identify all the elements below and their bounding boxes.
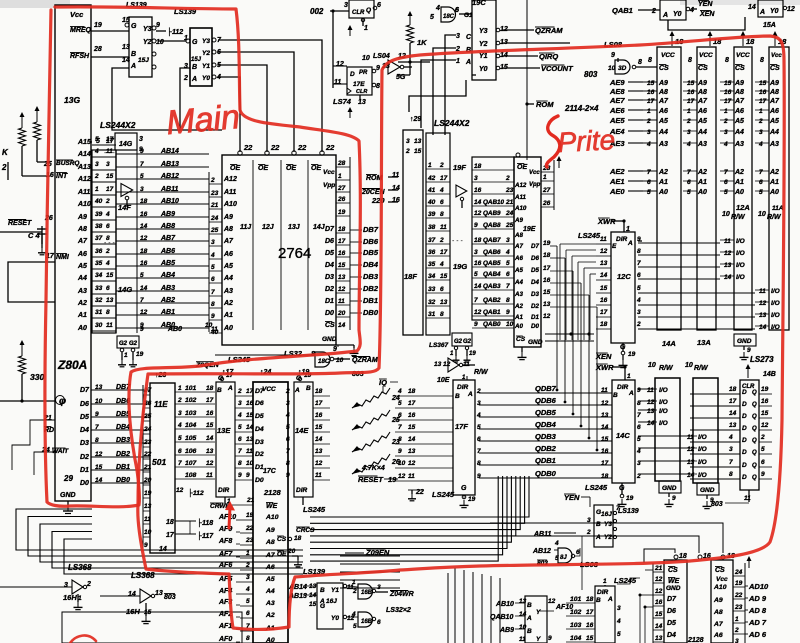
svg-text:9: 9 <box>246 472 250 479</box>
svg-text:LS245: LS245 <box>585 483 608 492</box>
svg-text:2128: 2128 <box>263 488 282 497</box>
svg-text:18: 18 <box>408 388 416 395</box>
svg-text:2: 2 <box>405 148 410 155</box>
svg-text:6: 6 <box>647 179 651 186</box>
svg-text:2: 2 <box>210 177 215 184</box>
19E bottom CS GND <box>516 336 543 360</box>
svg-text:3: 3 <box>211 239 215 246</box>
svg-text:GND: GND <box>662 485 677 492</box>
svg-text:A13: A13 <box>77 164 91 171</box>
svg-text:4: 4 <box>636 297 641 304</box>
svg-text:101: 101 <box>570 596 582 603</box>
svg-text:6: 6 <box>211 276 215 283</box>
svg-text:13: 13 <box>106 297 114 304</box>
svg-text:19: 19 <box>626 495 634 502</box>
svg-text:B: B <box>596 597 601 604</box>
svg-text:16: 16 <box>724 89 732 96</box>
wire nested data bus bottom left <box>16 509 303 574</box>
svg-text:DIR: DIR <box>597 589 609 596</box>
svg-text:7: 7 <box>95 424 99 431</box>
svg-text:16J: 16J <box>601 511 612 518</box>
svg-text:I/O: I/O <box>698 446 707 453</box>
AND gate 16B upper <box>347 579 414 599</box>
svg-text:3: 3 <box>735 638 739 643</box>
svg-text:1: 1 <box>456 58 460 65</box>
wire Y2 to second decoder <box>158 40 186 42</box>
svg-text:10: 10 <box>608 65 616 72</box>
svg-text:Y: Y <box>536 609 541 616</box>
svg-text:A0: A0 <box>514 323 523 330</box>
svg-text:B: B <box>613 392 618 399</box>
svg-text:A10: A10 <box>514 205 527 212</box>
svg-text:4: 4 <box>285 412 290 419</box>
svg-text:15: 15 <box>687 80 695 87</box>
svg-text:23: 23 <box>245 537 254 544</box>
svg-text:4: 4 <box>646 141 651 148</box>
svg-text:4.7K×4: 4.7K×4 <box>361 465 385 472</box>
svg-text:9: 9 <box>474 222 478 229</box>
svg-text:A0: A0 <box>658 189 668 196</box>
svg-text:2: 2 <box>723 118 728 125</box>
svg-text:2: 2 <box>439 162 444 169</box>
svg-text:I/O: I/O <box>698 459 707 466</box>
svg-text:4: 4 <box>636 448 641 455</box>
svg-text:4: 4 <box>245 586 250 593</box>
IC Z80A CPU 13G <box>41 5 129 501</box>
svg-text:A6: A6 <box>658 108 668 115</box>
svg-text:LS245: LS245 <box>432 490 455 499</box>
svg-text:D2: D2 <box>255 451 264 458</box>
svg-text:4: 4 <box>94 148 99 155</box>
svg-text:12: 12 <box>408 460 416 467</box>
svg-text:A10: A10 <box>223 201 237 208</box>
svg-text:11: 11 <box>724 238 731 245</box>
svg-text:I/O: I/O <box>659 387 668 394</box>
svg-text:AD10: AD10 <box>748 582 769 591</box>
svg-text:A2: A2 <box>77 300 87 307</box>
svg-text:A6: A6 <box>713 632 723 639</box>
svg-text:11: 11 <box>338 298 345 305</box>
svg-text:D2: D2 <box>80 454 89 461</box>
svg-text:4: 4 <box>554 540 559 547</box>
svg-text:5: 5 <box>430 14 434 21</box>
capacitor C4 RESET <box>0 220 47 255</box>
svg-text:A0: A0 <box>769 189 779 196</box>
svg-text:LS139: LS139 <box>618 508 639 515</box>
svg-text:AE6: AE6 <box>609 106 625 115</box>
svg-text:11J: 11J <box>240 224 252 231</box>
svg-text:D5: D5 <box>325 250 334 257</box>
svg-text:13: 13 <box>309 583 317 590</box>
svg-text:8: 8 <box>376 83 380 90</box>
svg-text:19: 19 <box>735 580 743 587</box>
svg-text:8: 8 <box>238 460 242 467</box>
svg-text:D4: D4 <box>667 632 676 639</box>
svg-text:14: 14 <box>408 436 416 443</box>
svg-text:D3: D3 <box>255 439 264 446</box>
svg-text:DB5: DB5 <box>363 248 379 257</box>
svg-text:A7: A7 <box>713 621 724 628</box>
svg-text:16: 16 <box>408 412 416 419</box>
svg-text:14: 14 <box>729 410 737 417</box>
IC 19C decoder LS138 <box>455 0 508 80</box>
svg-text:D1: D1 <box>325 298 334 305</box>
svg-text:AD 6: AD 6 <box>748 630 767 639</box>
svg-text:19C: 19C <box>472 0 486 7</box>
svg-text:8: 8 <box>477 460 481 467</box>
svg-text:13: 13 <box>408 448 416 455</box>
svg-text:AE2: AE2 <box>609 167 625 176</box>
svg-text:7: 7 <box>759 169 763 176</box>
label CRWR and AF bus <box>210 503 253 643</box>
svg-text:15: 15 <box>647 80 655 87</box>
svg-text:B: B <box>131 51 136 58</box>
svg-text:Y2: Y2 <box>143 39 152 46</box>
wires 19C outputs QZRAM QIRQ VCOUNT <box>502 26 598 79</box>
svg-text:Q: Q <box>752 450 757 456</box>
svg-text:A7: A7 <box>77 238 88 245</box>
svg-text:14C: 14C <box>616 431 630 440</box>
svg-text:14: 14 <box>392 185 400 192</box>
svg-text:Y3: Y3 <box>143 26 152 33</box>
svg-text:18: 18 <box>474 237 482 244</box>
svg-text:├112: ├112 <box>188 488 204 498</box>
svg-text:30: 30 <box>95 322 103 329</box>
svg-text:8J: 8J <box>560 555 567 561</box>
svg-text:2: 2 <box>586 529 591 536</box>
svg-text:9: 9 <box>144 542 148 549</box>
svg-text:15: 15 <box>586 635 594 642</box>
svg-text:AE1: AE1 <box>609 177 625 186</box>
wire RD WAIT left loop <box>12 420 55 475</box>
svg-text:15: 15 <box>309 601 317 608</box>
svg-text:7: 7 <box>729 459 733 466</box>
vertical bus drops to bottom ladder <box>448 568 500 643</box>
svg-text:A2: A2 <box>265 612 275 619</box>
svg-text:A2: A2 <box>658 169 668 176</box>
pin 18 bubbles top of 2128s <box>674 553 735 560</box>
svg-text:AB13: AB13 <box>160 161 179 168</box>
svg-text:Vcc: Vcc <box>70 10 84 19</box>
svg-text:LS368: LS368 <box>131 571 155 580</box>
svg-text:8: 8 <box>440 211 444 218</box>
svg-text:26: 26 <box>542 200 551 207</box>
resistor array 4.7Kx4 <box>352 388 400 474</box>
svg-text:OE: OE <box>277 551 287 558</box>
svg-text:QAB10: QAB10 <box>483 199 504 206</box>
svg-text:A: A <box>607 596 613 603</box>
svg-text:12: 12 <box>655 576 663 583</box>
svg-text:5: 5 <box>286 424 290 431</box>
svg-text:39: 39 <box>95 211 103 218</box>
wires with dots left of 2128 <box>617 570 653 643</box>
svg-text:6: 6 <box>178 448 182 455</box>
svg-text:803: 803 <box>584 70 598 79</box>
svg-text:13: 13 <box>543 301 551 308</box>
svg-text:40: 40 <box>94 198 103 205</box>
svg-text:D: D <box>742 401 747 408</box>
svg-text:18: 18 <box>338 226 346 233</box>
svg-text:9: 9 <box>140 326 144 333</box>
svg-text:42: 42 <box>427 175 436 182</box>
svg-text:9: 9 <box>477 473 481 480</box>
GND boxes under RAM columns 1 2 <box>659 481 719 509</box>
svg-text:R/W: R/W <box>659 365 674 372</box>
svg-text:D3: D3 <box>80 440 89 447</box>
svg-text:14J: 14J <box>313 224 326 231</box>
svg-text:2: 2 <box>758 118 763 125</box>
svg-text:G: G <box>461 485 467 492</box>
svg-text:13: 13 <box>338 274 346 281</box>
svg-text:6: 6 <box>687 179 691 186</box>
QDB bus rows <box>479 384 612 478</box>
svg-text:A8: A8 <box>734 89 744 96</box>
AND gate 18C top <box>430 5 472 22</box>
svg-text:3: 3 <box>687 129 691 136</box>
svg-text:104: 104 <box>185 422 197 429</box>
svg-text:17: 17 <box>206 397 214 404</box>
label CS CRCS OE <box>277 527 315 567</box>
svg-text:18C: 18C <box>443 14 455 20</box>
svg-text:34: 34 <box>428 273 436 280</box>
svg-text:41: 41 <box>427 187 436 194</box>
svg-text:I/O: I/O <box>736 274 745 281</box>
svg-text:21: 21 <box>210 202 219 209</box>
svg-text:15: 15 <box>106 173 114 180</box>
IC bottom right ROM with AD bus <box>711 556 769 643</box>
svg-text:4: 4 <box>616 618 621 625</box>
svg-text:7: 7 <box>286 448 290 455</box>
svg-text:6: 6 <box>238 436 242 443</box>
svg-text:2: 2 <box>105 198 110 205</box>
svg-text:803: 803 <box>164 594 176 601</box>
svg-text:Y1: Y1 <box>202 63 210 70</box>
svg-text:24: 24 <box>143 426 152 433</box>
wire fan 12C to RAM IO 3 <box>638 243 720 279</box>
svg-text:16: 16 <box>687 89 695 96</box>
svg-text:GND: GND <box>700 487 715 494</box>
svg-text:8: 8 <box>95 437 99 444</box>
svg-text:Z80A: Z80A <box>57 358 87 372</box>
svg-text:11: 11 <box>392 172 399 179</box>
svg-text:A5: A5 <box>223 263 233 270</box>
labels ROM 20CEN 220 to right of EPROM <box>361 172 400 205</box>
svg-text:17F: 17F <box>455 422 468 431</box>
IC 2114 RAM column 1 14A <box>643 47 681 427</box>
svg-text:VCC: VCC <box>736 52 750 59</box>
svg-text:1: 1 <box>687 108 691 115</box>
svg-text:I/O: I/O <box>771 300 780 307</box>
svg-text:23: 23 <box>391 439 400 446</box>
svg-text:D7: D7 <box>667 596 677 603</box>
svg-text:3: 3 <box>246 574 250 581</box>
IC LS139 15J second half <box>174 7 222 86</box>
svg-text:6: 6 <box>440 286 444 293</box>
svg-text:220: 220 <box>371 196 385 205</box>
svg-text:I/O: I/O <box>771 324 780 331</box>
IC decoder 15A top right <box>748 0 795 29</box>
svg-text:A1: A1 <box>734 179 744 186</box>
svg-text:LS244X2: LS244X2 <box>100 120 136 130</box>
AND gate 16B lower <box>347 607 411 630</box>
svg-text:1K: 1K <box>417 38 427 47</box>
svg-text:12: 12 <box>647 399 655 406</box>
IC LS367 G2 box <box>429 333 476 362</box>
svg-text:OE: OE <box>286 165 296 172</box>
svg-text:14: 14 <box>759 324 767 331</box>
svg-text:5: 5 <box>647 189 651 196</box>
svg-text:9: 9 <box>156 22 160 29</box>
svg-text:QAB2: QAB2 <box>483 297 501 304</box>
label RESET 19 <box>358 475 398 484</box>
svg-text:I/O: I/O <box>659 399 668 406</box>
svg-text:11: 11 <box>246 448 253 455</box>
svg-text:R/W: R/W <box>694 365 709 372</box>
svg-text:D7: D7 <box>255 388 265 395</box>
svg-text:D0: D0 <box>255 477 264 484</box>
svg-text:1: 1 <box>724 108 728 115</box>
inverter LS368 16H first <box>0 563 92 610</box>
svg-text:D5: D5 <box>80 414 89 421</box>
svg-text:AB1: AB1 <box>160 309 175 316</box>
svg-text:15J: 15J <box>191 57 202 63</box>
svg-text:A: A <box>130 63 136 70</box>
svg-text:18: 18 <box>294 535 302 542</box>
svg-text:5: 5 <box>637 436 641 443</box>
svg-text:12: 12 <box>724 250 732 257</box>
svg-text:A8: A8 <box>769 89 779 96</box>
svg-text:AE0: AE0 <box>609 187 625 196</box>
svg-text:18: 18 <box>601 473 609 480</box>
svg-text:10: 10 <box>336 357 344 364</box>
svg-text:A12: A12 <box>514 182 527 189</box>
svg-text:5: 5 <box>178 435 182 442</box>
svg-text:VCC: VCC <box>699 52 713 59</box>
svg-text:A1: A1 <box>697 179 707 186</box>
svg-text:1: 1 <box>627 373 631 380</box>
svg-text:R/W: R/W <box>767 214 782 221</box>
up arrow above 19E cells <box>558 158 560 168</box>
svg-text:AB2: AB2 <box>160 297 175 304</box>
svg-text:AB10: AB10 <box>160 198 179 205</box>
IC 17E D flip-flop lower with LS04 <box>333 53 412 118</box>
svg-text:I/O: I/O <box>736 238 745 245</box>
svg-text:XEN: XEN <box>699 11 715 18</box>
svg-text:A8: A8 <box>697 89 707 96</box>
svg-text:24: 24 <box>210 215 219 222</box>
svg-text:D0: D0 <box>531 323 539 330</box>
svg-text:Vpp: Vpp <box>323 182 335 189</box>
svg-text:A5: A5 <box>77 263 87 270</box>
svg-text:15: 15 <box>106 272 114 279</box>
svg-text:14: 14 <box>95 477 103 484</box>
IC 13E LS245 <box>216 372 254 505</box>
svg-text:3: 3 <box>178 410 182 417</box>
svg-text:13: 13 <box>315 448 323 455</box>
labels AB11 AB12 and gate 18J <box>532 531 599 569</box>
svg-text:15: 15 <box>600 285 608 292</box>
AE9-AE0 address labels <box>609 78 643 196</box>
svg-text:10: 10 <box>156 39 164 46</box>
svg-text:11: 11 <box>206 472 213 479</box>
svg-text:18: 18 <box>315 388 323 395</box>
wire box bottom left <box>62 612 242 643</box>
svg-text:9: 9 <box>747 347 751 354</box>
svg-text:11: 11 <box>744 495 751 502</box>
svg-text:↑29: ↑29 <box>410 116 421 123</box>
svg-text:A5: A5 <box>697 118 707 125</box>
svg-text:A6: A6 <box>514 255 523 262</box>
svg-text:LS04: LS04 <box>373 53 390 60</box>
svg-text:5: 5 <box>246 598 250 605</box>
svg-text:9: 9 <box>637 387 641 394</box>
svg-text:1: 1 <box>124 352 128 359</box>
svg-text:19: 19 <box>469 351 476 357</box>
svg-text:AB5: AB5 <box>160 260 175 267</box>
svg-text:7: 7 <box>178 460 182 467</box>
svg-text:11: 11 <box>408 473 415 480</box>
svg-text:A7: A7 <box>514 243 523 250</box>
svg-text:D4: D4 <box>531 279 539 286</box>
svg-text:A11: A11 <box>514 194 526 201</box>
IC 18F box <box>403 130 423 335</box>
svg-text:A2: A2 <box>697 169 707 176</box>
svg-text:DIR: DIR <box>616 236 628 243</box>
svg-text:R/W: R/W <box>731 214 746 221</box>
svg-text:2: 2 <box>352 588 357 595</box>
svg-text:A: A <box>627 240 633 247</box>
svg-text:QAB1: QAB1 <box>612 6 633 15</box>
svg-text:A11: A11 <box>77 189 90 196</box>
data bus DB7-DB0 labels <box>350 225 379 317</box>
svg-text:D2: D2 <box>531 303 539 310</box>
wire A B inputs left loop <box>112 68 222 130</box>
svg-text:14: 14 <box>315 436 323 443</box>
wire Y3 to 112 <box>156 30 166 32</box>
svg-text:2: 2 <box>476 388 481 395</box>
svg-text:105: 105 <box>185 435 197 442</box>
svg-text:QAB6: QAB6 <box>483 249 501 256</box>
svg-text:AB9: AB9 <box>499 627 514 634</box>
svg-text:15: 15 <box>761 410 769 417</box>
svg-text:38: 38 <box>428 224 436 231</box>
svg-text:A6: A6 <box>77 251 87 258</box>
svg-text:15: 15 <box>315 424 323 431</box>
svg-text:Q: Q <box>366 7 371 14</box>
svg-text:AB3: AB3 <box>160 285 175 292</box>
svg-text:3: 3 <box>474 249 478 256</box>
svg-text:21: 21 <box>505 199 514 206</box>
wires Z80 data to 501 <box>80 384 150 487</box>
svg-text:8: 8 <box>638 59 642 66</box>
svg-text:17: 17 <box>600 309 608 316</box>
svg-text:17: 17 <box>647 98 655 105</box>
svg-text:11: 11 <box>315 472 322 479</box>
svg-text:Q: Q <box>752 475 757 481</box>
svg-text:13: 13 <box>601 412 609 419</box>
svg-text:5G: 5G <box>396 74 406 81</box>
svg-text:8: 8 <box>648 57 652 64</box>
svg-text:A5: A5 <box>514 267 523 274</box>
svg-text:19: 19 <box>94 22 102 29</box>
svg-text:5: 5 <box>724 189 728 196</box>
svg-text:35: 35 <box>95 260 103 267</box>
svg-text:15A: 15A <box>763 22 776 29</box>
svg-text:20: 20 <box>337 310 346 317</box>
svg-text:A0: A0 <box>265 637 275 643</box>
svg-text:YEN: YEN <box>698 1 713 8</box>
svg-text:D5: D5 <box>531 267 539 274</box>
